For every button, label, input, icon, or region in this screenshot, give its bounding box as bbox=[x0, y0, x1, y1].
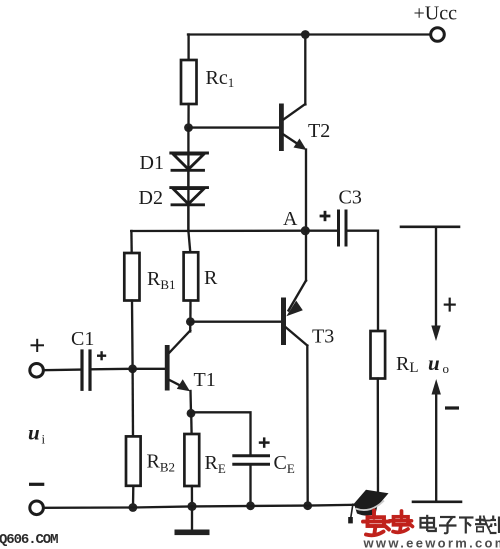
svg-text:T3: T3 bbox=[312, 326, 334, 348]
wire T1 base bbox=[133, 368, 165, 370]
label input plus bbox=[31, 339, 45, 352]
wire R bottom bbox=[189, 301, 191, 322]
svg-text:R: R bbox=[204, 267, 218, 289]
logo graduation cap bbox=[348, 490, 388, 524]
svg-text:D2: D2 bbox=[139, 187, 163, 209]
terminal +Ucc bbox=[431, 28, 445, 42]
wire RB2 bottom bbox=[132, 486, 135, 508]
uo indicator bottom bar bbox=[413, 500, 461, 503]
svg-text:+Ucc: +Ucc bbox=[414, 3, 458, 25]
wire RB1 bottom to T1 base bbox=[131, 301, 134, 369]
label C3 plus bbox=[320, 211, 331, 221]
junction dot T3 collector bottom bbox=[303, 501, 312, 510]
svg-text:C1: C1 bbox=[71, 328, 94, 350]
wire RE bottom bbox=[191, 486, 193, 506]
junction dot R bottom / T1 collector / T3 base bbox=[186, 317, 195, 326]
label uo plus bbox=[444, 298, 456, 312]
capacitor C3 bbox=[339, 211, 347, 245]
svg-text:u: u bbox=[428, 351, 440, 375]
junction dot RB2 bottom bbox=[129, 503, 138, 512]
label CE plus bbox=[259, 437, 270, 447]
capacitor C1 bbox=[82, 351, 90, 389]
wire RL bottom bbox=[377, 379, 380, 505]
wire CE bottom bbox=[249, 464, 251, 506]
svg-text:C3: C3 bbox=[339, 187, 362, 209]
resistor R bbox=[184, 252, 199, 300]
wire to RE top bbox=[190, 413, 193, 434]
wire T1 emitter to CE top bbox=[191, 412, 251, 455]
terminal input bottom bbox=[30, 501, 44, 515]
wire T1 emitter down bbox=[189, 391, 192, 413]
label input minus bbox=[29, 483, 44, 486]
wire T2 emitter to node A bbox=[305, 150, 307, 232]
wire through diode stack bbox=[187, 128, 189, 231]
transistor T1 bbox=[165, 322, 191, 392]
svg-text:www.eeworm.com: www.eeworm.com bbox=[363, 536, 500, 549]
svg-text:T1: T1 bbox=[194, 369, 216, 391]
svg-text:T2: T2 bbox=[308, 120, 330, 142]
wire RB2 top bbox=[131, 369, 134, 437]
resistor RB1 branch wire top bbox=[130, 231, 133, 253]
resistor RB1 bbox=[124, 253, 139, 301]
resistor RE bbox=[184, 434, 199, 486]
wire bottom rail bbox=[44, 504, 379, 507]
uo indicator down arrow bbox=[431, 227, 440, 341]
capacitor CE bbox=[234, 456, 269, 465]
diode D1 bbox=[171, 153, 208, 170]
wire C1 to T1 base node bbox=[92, 368, 133, 371]
terminal input top bbox=[30, 364, 44, 378]
label C1 plus bbox=[97, 351, 106, 360]
wire mid rail bbox=[131, 230, 305, 233]
junction dot T1 base bbox=[128, 364, 137, 373]
svg-text:u: u bbox=[28, 421, 40, 445]
wire Rc1 top bbox=[187, 35, 189, 61]
resistor R branch wire top bbox=[188, 231, 190, 252]
logo chongchong character 1 bbox=[363, 511, 389, 536]
resistor RL bbox=[371, 331, 386, 379]
svg-text:i: i bbox=[42, 432, 46, 447]
resistor RB2 bbox=[126, 436, 141, 485]
wire T3 base bbox=[190, 321, 281, 323]
junction dot RE bottom bbox=[187, 502, 196, 511]
svg-text:o: o bbox=[443, 361, 450, 376]
transistor T2 bbox=[279, 35, 307, 152]
junction dot CE bottom bbox=[246, 501, 255, 510]
wire C3 to RL corner bbox=[348, 231, 379, 331]
wire D2 to mid rail bbox=[187, 205, 189, 231]
logo text dianzi xiazaizhan bbox=[421, 515, 500, 534]
svg-text:D1: D1 bbox=[140, 152, 164, 174]
junction dot T1 emitter bbox=[187, 409, 196, 418]
uo indicator top bar bbox=[401, 226, 459, 229]
svg-text:Q606.COM: Q606.COM bbox=[0, 532, 58, 548]
label uo minus bbox=[445, 406, 459, 409]
uo indicator up arrow bbox=[432, 379, 441, 500]
ground bbox=[175, 506, 210, 535]
transistor T3 bbox=[281, 231, 308, 506]
svg-text:A: A bbox=[283, 208, 298, 230]
node junction dot Rc1/D1/T2-base bbox=[184, 123, 193, 132]
wire input to C1 bbox=[44, 368, 81, 371]
junction dot T2 collector / top rail bbox=[301, 30, 310, 39]
node A junction dot bbox=[301, 226, 310, 235]
wire between D1 and D2 bbox=[187, 170, 189, 187]
logo chongchong character 2 bbox=[390, 511, 413, 532]
wire Rc1 bottom bbox=[187, 104, 189, 128]
diode D2 bbox=[171, 188, 208, 205]
resistor Rc1 bbox=[181, 60, 197, 104]
wire top rail bbox=[188, 33, 431, 35]
wire T2 base bbox=[189, 126, 280, 128]
wire node A to C3 bbox=[305, 230, 337, 232]
